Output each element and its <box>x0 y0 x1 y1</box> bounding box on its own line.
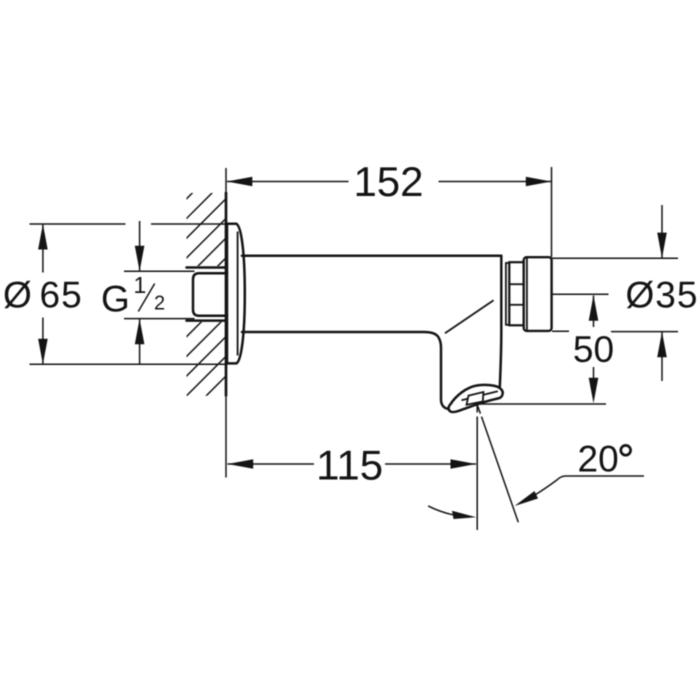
inlet thread G1/2 (outer diameter lines, hatch knockout) <box>186 266 227 322</box>
flange rim edge line <box>237 232 239 356</box>
dimension D35: top arrow outside <box>657 205 667 258</box>
dimension G1/2: fraction slash <box>138 284 154 312</box>
dimension 152: right arrowhead <box>526 177 552 187</box>
svg-text:152: 152 <box>353 158 423 205</box>
degree symbol <box>621 445 631 455</box>
svg-text:Ø35: Ø35 <box>626 274 699 315</box>
svg-text:50: 50 <box>573 329 614 370</box>
outlet mousseur slot <box>467 392 484 405</box>
dimension D65: extension lines <box>30 224 228 364</box>
dimension 115: left arrowhead <box>228 459 254 469</box>
dimension D65: arrowheads <box>38 224 48 364</box>
outlet cap face edge line <box>462 391 498 400</box>
dimension D65: dimension line <box>42 224 44 364</box>
wall face line (also extension line for 152 and 115) <box>225 168 227 478</box>
dimension G1/2: arrows outside <box>135 221 145 364</box>
cartridge hex nut <box>509 262 523 325</box>
svg-text:115: 115 <box>316 442 383 489</box>
svg-text:20: 20 <box>578 439 619 480</box>
tap body end face / spout right edge <box>500 256 502 387</box>
svg-text:65: 65 <box>40 275 83 316</box>
angle leader line with arrowhead <box>515 476 645 506</box>
dimension 152: left arrowhead <box>227 177 253 187</box>
svg-text:2: 2 <box>154 293 165 315</box>
dimension D35: extension lines <box>552 258 679 331</box>
dimension 115: right arrowhead <box>451 459 477 469</box>
dimension 152: dimension line <box>227 181 551 183</box>
spout shoulder tangent line <box>445 300 494 333</box>
tap body bottom contour and spout left edge <box>242 332 449 409</box>
outlet vertical reference line (dashed near tip) <box>476 405 478 530</box>
dimension 50: bottom arrow <box>589 367 599 403</box>
svg-text:Ø: Ø <box>3 275 32 316</box>
dimension 50: outlet extension line <box>478 403 606 405</box>
wall section hatching <box>159 140 245 443</box>
inlet thread end face (chamfered) <box>193 273 227 315</box>
dimension 50: top arrow <box>589 295 599 327</box>
dimension D35: bottom arrow outside <box>657 332 667 381</box>
push button knob (D35) <box>524 257 552 331</box>
tap body top contour <box>242 255 501 258</box>
svg-text:G: G <box>101 279 130 320</box>
dimension 50: axis extension line <box>552 293 609 295</box>
wall flange / escutcheon <box>227 224 245 364</box>
extension line at knob end <box>551 167 553 257</box>
dimension G1/2: extension lines <box>124 271 195 318</box>
angle dimension arc with arrowhead <box>428 506 476 519</box>
cartridge spacer ring <box>506 263 509 325</box>
spout outlet cap (mousseur housing) <box>449 385 503 412</box>
dimension 115: dimension line <box>228 463 477 465</box>
svg-text:1: 1 <box>134 272 147 298</box>
20 degree jet line (dashed near tip) <box>477 405 518 522</box>
